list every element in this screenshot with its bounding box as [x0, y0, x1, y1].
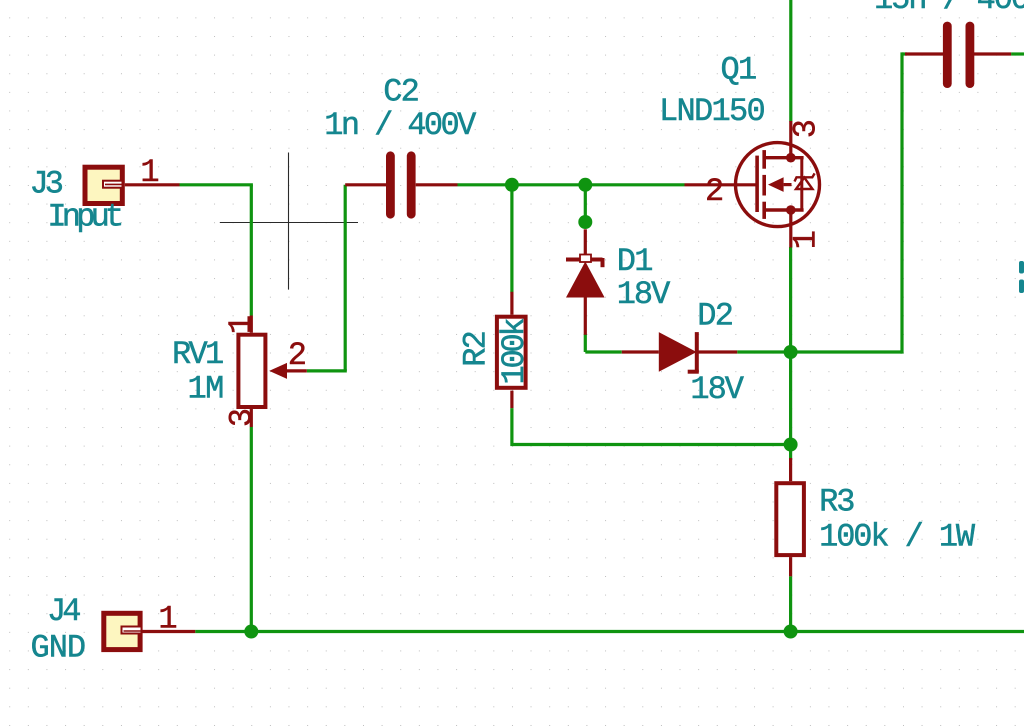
wire D1 to D2: [585, 350, 622, 353]
junction node R2/R3: [784, 438, 798, 452]
svg-text:D2: D2: [697, 297, 732, 334]
svg-text:R3: R3: [819, 484, 854, 521]
wire right riser up to top cap: [900, 52, 903, 353]
svg-text:1: 1: [140, 154, 159, 191]
substrate arrow: [768, 177, 784, 192]
svg-text:3: 3: [787, 119, 824, 138]
pin 3 of Q1 (drain): [789, 121, 792, 158]
wire R2 bottom down: [510, 408, 513, 446]
connector J4: [104, 613, 142, 649]
pin 2 of R3: [789, 557, 792, 576]
capacitor C2: [390, 156, 411, 214]
svg-text:100k: 100k: [496, 318, 533, 384]
svg-text:RV1: RV1: [172, 336, 223, 373]
svg-text:1: 1: [223, 315, 260, 334]
wire J3 to corner: [180, 183, 253, 186]
pin 1 of C3: [905, 52, 943, 55]
svg-text:18V: 18V: [690, 371, 744, 408]
svg-text:R2: R2: [458, 332, 495, 367]
svg-text:LND150: LND150: [659, 93, 765, 130]
gate bar: [755, 156, 759, 212]
wire stub to D1: [584, 185, 587, 226]
body diode vertical: [800, 158, 803, 210]
svg-text:18V: 18V: [617, 276, 671, 313]
capacitor C3 (top right): [947, 26, 970, 84]
zener diode D2: [659, 332, 699, 372]
pin 1 of D2 (anode): [622, 350, 659, 353]
svg-text:1: 1: [787, 230, 824, 249]
wire RV1 pin3 down to ground rail: [250, 427, 253, 633]
svg-text:1: 1: [158, 601, 177, 638]
svg-text:15n / 400V: 15n / 400V: [874, 0, 1024, 18]
resistor R2: [497, 317, 526, 388]
pin 3 of RV1: [250, 409, 253, 427]
body diode triangle: [796, 178, 813, 189]
drain node dot: [786, 153, 796, 163]
svg-text:J3: J3: [30, 166, 63, 203]
source node dot: [786, 205, 796, 215]
wire C2 left down: [344, 185, 347, 371]
channel segment top: [762, 150, 766, 169]
pin 2 of C2: [416, 183, 458, 186]
zener diode D1: [566, 255, 605, 298]
wire down to RV1 pin 1: [250, 185, 253, 316]
connector J3: [85, 167, 125, 203]
wire Q1 source down to R3: [789, 247, 792, 460]
MOSFET Q1: [736, 143, 820, 227]
wire down to R2: [510, 185, 513, 292]
pin 2 of RV1: [286, 369, 307, 372]
pin 2 of C3: [974, 52, 1011, 55]
wire riser to cap lead: [902, 52, 907, 55]
pin 1 of J4: [142, 630, 195, 633]
channel segment bottom: [762, 202, 766, 219]
pin 2 of D1 (anode): [584, 298, 587, 335]
pin 1 of D1 (cathode): [584, 229, 587, 255]
potentiometer RV1: [238, 335, 287, 407]
svg-text:C2: C2: [383, 73, 418, 110]
wire ground rail: [195, 630, 1024, 633]
pin 1 of RV1: [250, 316, 253, 333]
junction node RV1/ground: [244, 625, 258, 639]
pin 1 of R2: [510, 292, 513, 315]
pin 2 of Q1 (gate): [685, 183, 758, 186]
resistor R3: [776, 483, 804, 555]
wire Q1 drain to top edge: [789, 0, 792, 122]
svg-text:GND: GND: [31, 629, 86, 666]
wire D2 to right riser: [737, 350, 902, 353]
pin 2 of D2 (cathode): [697, 350, 737, 353]
body diode cathode bar: [795, 173, 815, 181]
source tap: [764, 208, 803, 211]
svg-text:D1: D1: [617, 243, 653, 280]
svg-text:Q1: Q1: [720, 52, 756, 89]
wire to RV1 pin 2: [307, 369, 347, 372]
svg-text:3: 3: [224, 408, 261, 427]
junction node at D1 top rail: [578, 178, 592, 192]
junction node D2/Q1 source: [784, 345, 798, 359]
drain tap: [764, 156, 803, 159]
wire C2 right to Q1 gate: [458, 183, 685, 186]
pin 1 of J3: [125, 183, 180, 186]
wire D1 anode down: [584, 334, 587, 352]
svg-text:2: 2: [705, 173, 724, 210]
wire top cap right to edge: [1011, 52, 1024, 55]
channel segment middle: [762, 175, 766, 196]
wire R3 bottom to ground rail: [789, 576, 792, 631]
pin 1 of R3: [789, 458, 792, 481]
svg-text:Input: Input: [47, 198, 121, 235]
svg-text:1M: 1M: [188, 371, 224, 408]
pin 1 of Q1 (source): [789, 210, 792, 248]
svg-text:J4: J4: [47, 593, 80, 630]
wires (green): [180, 0, 1024, 633]
clipped label at right edge: [1019, 261, 1024, 293]
junction node R3/ground: [784, 625, 798, 639]
svg-text:100k / 1W: 100k / 1W: [819, 518, 976, 555]
svg-text:1n / 400V: 1n / 400V: [324, 107, 477, 144]
pin 1 of C2: [345, 183, 386, 186]
junction node at C2/R2: [505, 178, 519, 192]
cursor crosshair: [220, 153, 358, 290]
junction node above D1: [578, 215, 592, 229]
pin 2 of R2: [510, 391, 513, 409]
body circle: [736, 143, 820, 227]
svg-text:2: 2: [288, 337, 307, 374]
wire R2 to R3 node: [512, 443, 791, 446]
